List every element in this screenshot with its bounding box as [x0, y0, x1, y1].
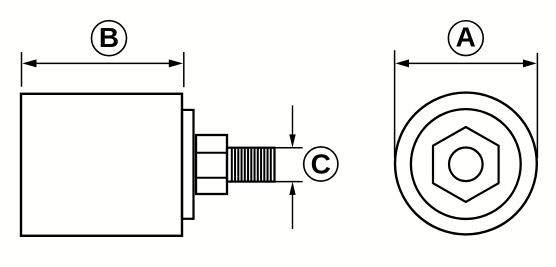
svg-text:A: A	[456, 21, 476, 52]
svg-text:B: B	[99, 22, 119, 53]
svg-text:C: C	[311, 149, 331, 180]
